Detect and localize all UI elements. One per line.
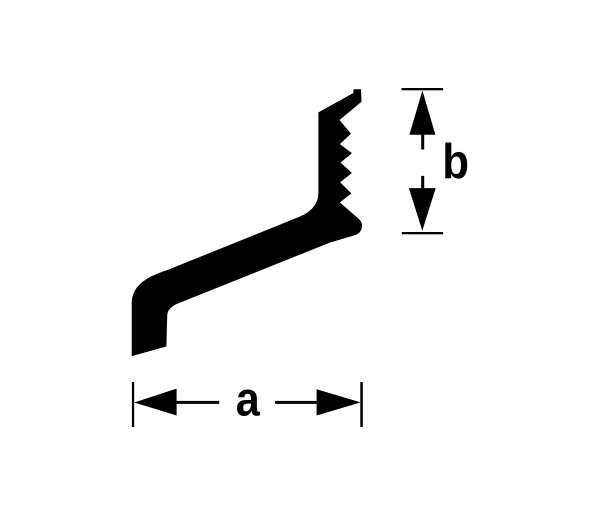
svg-text:a: a [236,372,261,426]
svg-text:b: b [442,134,469,189]
